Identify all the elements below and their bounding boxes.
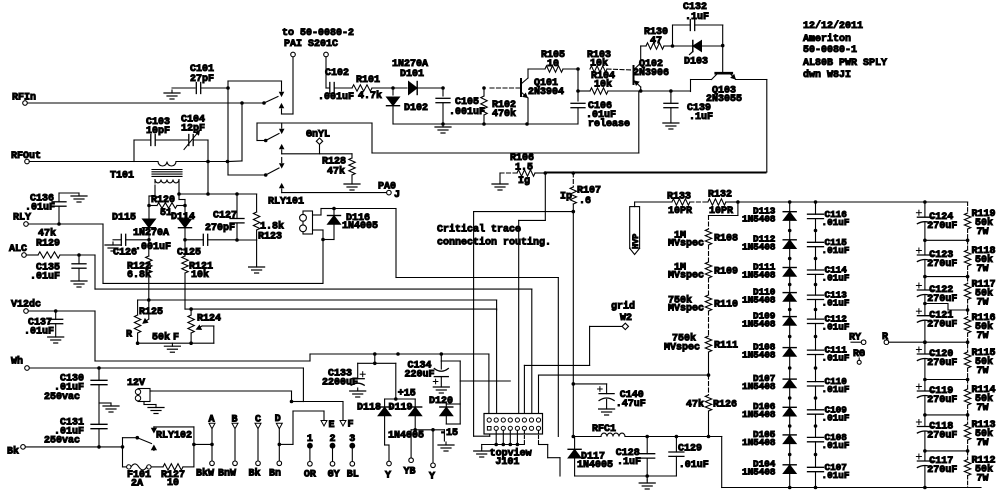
wire HV top rail <box>738 200 968 204</box>
wire HVP to R133 <box>635 202 672 207</box>
terminal S201C <box>324 52 329 57</box>
node grid W2 <box>611 301 635 330</box>
wire +15 branch <box>358 354 396 399</box>
switch S1a lower contact <box>280 104 284 114</box>
wire D column to E terminal <box>278 411 325 446</box>
resistor R117 50k 7W <box>964 280 995 309</box>
svg-text:BkW: BkW <box>196 468 214 480</box>
wire Ig line to Q103 <box>545 171 766 175</box>
switch S1b blade <box>264 134 279 143</box>
potentiometer R124 <box>188 309 221 343</box>
wire Bk line <box>25 445 124 449</box>
terminal R <box>882 332 927 345</box>
connector J101 top row pins <box>487 418 541 422</box>
wire Wh line <box>29 366 303 370</box>
capacitor C131 .01uF 250vac <box>44 418 107 447</box>
capacitor C135 .01uF <box>30 255 86 283</box>
wire R101 to D101 <box>372 86 407 90</box>
diode D117 1N4005 <box>568 437 613 477</box>
terminal 2 GY <box>328 434 340 481</box>
svg-text:R129: R129 <box>36 239 60 250</box>
capacitor C117 270uF <box>916 454 957 476</box>
capacitor C127 270pF <box>205 194 244 242</box>
capacitor C109 .01uF <box>808 404 850 423</box>
terminal 3 BL <box>347 434 359 481</box>
resistor R103 10k <box>587 50 632 72</box>
svg-text:C126: C126 <box>113 248 137 259</box>
svg-text:BnW: BnW <box>218 469 236 480</box>
probe HVP <box>630 207 641 255</box>
switch S1b upper contact <box>280 123 284 133</box>
wire filter stage link <box>923 449 969 453</box>
wire V12dc rail <box>28 309 489 418</box>
wire HV diode chain column <box>788 202 792 488</box>
diode D101 1N270A <box>392 59 443 95</box>
svg-text:to 50-0080-2: to 50-0080-2 <box>282 28 354 39</box>
svg-text:1N5408: 1N5408 <box>742 242 776 253</box>
svg-text:1N5408: 1N5408 <box>742 409 776 420</box>
svg-text:7W: 7W <box>977 227 989 238</box>
svg-text:27pF: 27pF <box>190 74 214 85</box>
capacitor C114 .01uF <box>808 265 850 284</box>
svg-text:S201C: S201C <box>308 39 338 50</box>
svg-text:7W: 7W <box>977 474 989 485</box>
capacitor C129 .01uF <box>669 437 709 477</box>
svg-text:7W: 7W <box>977 438 989 449</box>
capacitor C108 .01uF <box>808 432 850 451</box>
resistor R128 47k <box>322 154 355 180</box>
svg-text:7W: 7W <box>977 403 989 414</box>
svg-text:.001uF: .001uF <box>449 107 485 118</box>
node Wh label <box>11 356 23 368</box>
terminal YB <box>404 458 416 478</box>
resistor R119 50k 7W <box>964 209 995 238</box>
transistor Q101 2N3904 <box>490 69 564 124</box>
diode D109 1N5408 <box>742 311 796 330</box>
svg-text:7W: 7W <box>977 298 989 309</box>
label R for R125 <box>126 330 132 341</box>
svg-text:.01uF: .01uF <box>679 460 709 471</box>
wire D117 bottom rail <box>575 474 677 478</box>
resistor R123 1.8k <box>237 194 284 263</box>
wire S1a to PAI <box>282 57 294 114</box>
wire grid W2 to J101 <box>524 326 622 417</box>
wire D118 D119 link <box>385 397 416 407</box>
svg-text:.1uF: .1uF <box>689 112 713 123</box>
svg-text:47k: 47k <box>327 166 345 178</box>
svg-text:Bn: Bn <box>269 469 281 480</box>
svg-text:Wh: Wh <box>11 356 23 368</box>
wire D116 top rail right <box>334 209 558 437</box>
ground for minus15 <box>438 442 454 451</box>
connector J101 body <box>484 414 543 435</box>
resistor R110 750k MVspec <box>668 295 738 337</box>
wire RLY102 bottom loop <box>123 447 127 467</box>
svg-text:1N5408: 1N5408 <box>742 269 776 280</box>
capacitor C128 .1uF <box>616 437 655 481</box>
terminal D Bn <box>269 414 282 480</box>
svg-text:D119: D119 <box>389 402 413 413</box>
terminal F spade <box>340 420 354 431</box>
resistor R133 10PR <box>667 192 692 217</box>
capacitor C130 .01uF 250vac <box>44 368 107 424</box>
diode D108 1N5408 <box>742 342 796 361</box>
svg-text:R108: R108 <box>714 234 738 245</box>
svg-text:.01uF: .01uF <box>24 327 54 338</box>
wire RFC1 node to HV bottom rail <box>721 437 723 488</box>
svg-text:.001uF: .001uF <box>318 92 354 103</box>
ground for C133 <box>350 388 366 397</box>
resistor R121 10k <box>182 240 213 311</box>
svg-text:GY: GY <box>328 470 340 481</box>
capacitor C125 <box>147 234 237 258</box>
svg-text:.1uF: .1uF <box>685 12 709 23</box>
svg-text:R109: R109 <box>714 267 738 278</box>
transistor Q103 2N3055 <box>691 44 743 105</box>
resistor R112 50k 7W <box>964 456 995 485</box>
svg-text:C127: C127 <box>213 211 237 222</box>
svg-text:.6: .6 <box>579 196 591 207</box>
diode D102 <box>387 88 429 124</box>
wire filter stage link <box>923 239 969 243</box>
wire HV snubber cap column <box>814 202 818 488</box>
capacitor C118 270uF <box>916 420 957 442</box>
terminal Wh <box>25 366 30 371</box>
terminal PAI <box>291 52 296 57</box>
ground for C139 <box>663 120 679 129</box>
svg-text:R120: R120 <box>151 195 175 206</box>
svg-text:10: 10 <box>167 478 179 489</box>
svg-text:RLY101: RLY101 <box>268 197 304 208</box>
ground for C134 <box>433 384 449 393</box>
svg-text:MVspec: MVspec <box>668 271 704 282</box>
switch S1a blade <box>262 97 278 105</box>
svg-text:C129: C129 <box>678 444 702 455</box>
terminal RFOut <box>25 159 30 164</box>
diode D114 <box>133 206 195 254</box>
svg-text:+15: +15 <box>398 389 416 400</box>
svg-text:7W: 7W <box>977 366 989 377</box>
svg-text:4.7k: 4.7k <box>358 90 382 102</box>
terminal B BnW <box>218 415 238 480</box>
svg-text:250vac: 250vac <box>44 392 80 403</box>
transformer T101 <box>110 170 182 183</box>
terminal PA0 J <box>378 182 400 202</box>
connector J101 bottom row pins <box>487 426 540 430</box>
wire R107 column down to RFC1 <box>572 212 576 439</box>
svg-text:R: R <box>126 330 132 341</box>
label critical trace <box>437 224 551 249</box>
capacitor C119 270uF <box>916 384 957 406</box>
wire R132 junction down to bleeder chain <box>709 202 738 229</box>
svg-text:.01uF: .01uF <box>822 440 850 451</box>
ground for C128 <box>639 480 655 489</box>
terminal Y1 <box>385 461 391 481</box>
svg-text:MVspec: MVspec <box>668 304 704 315</box>
title block <box>803 20 887 81</box>
capacitor C120 270uF <box>916 347 957 369</box>
svg-text:.01uF: .01uF <box>822 412 850 423</box>
svg-text:PAI: PAI <box>284 39 302 50</box>
wire T101 secondary left lead <box>149 180 155 206</box>
svg-text:R101: R101 <box>356 75 380 86</box>
resistor R107 .6 Ip <box>560 173 601 213</box>
svg-text:R124: R124 <box>197 313 221 324</box>
svg-text:RLY102: RLY102 <box>156 431 192 442</box>
svg-text:-15: -15 <box>440 428 458 439</box>
switch S1a upper contact <box>280 81 284 96</box>
wire to PA0 <box>282 192 387 194</box>
capacitor C124 270uF <box>916 210 957 232</box>
capacitor C126 <box>105 234 149 258</box>
svg-text:OR: OR <box>304 470 316 481</box>
wire HV bottom rail <box>722 486 981 490</box>
wire Ig sense down to J101 <box>519 173 546 418</box>
relay RLY102 <box>123 427 194 467</box>
capacitor C121 270uF <box>916 309 957 331</box>
switch S1c lower contact <box>280 184 284 193</box>
svg-text:D120: D120 <box>429 396 453 407</box>
wire S201C to C102 <box>325 57 327 88</box>
ground tap between C130 C131 <box>99 403 119 412</box>
capacitor C103 10pF <box>134 117 183 162</box>
svg-text:.01uF: .01uF <box>822 322 850 333</box>
resistor R129 47k <box>26 228 80 259</box>
svg-text:Ip: Ip <box>560 192 572 203</box>
terminal RFIn <box>23 101 28 106</box>
svg-text:2A: 2A <box>131 479 143 490</box>
svg-text:12pF: 12pF <box>181 124 205 135</box>
diode D120 <box>429 396 460 439</box>
wire J101 bottom pin drops <box>482 430 525 448</box>
svg-text:R111: R111 <box>714 341 738 352</box>
svg-text:.01uF: .01uF <box>822 217 850 228</box>
svg-text:F: F <box>173 333 179 344</box>
capacitor C105 .001uF <box>436 86 485 124</box>
terminal 1 OR <box>304 434 316 481</box>
svg-text:D101: D101 <box>400 69 424 80</box>
wire detector top rail <box>179 192 257 196</box>
svg-text:10PR: 10PR <box>668 206 692 217</box>
terminal RY <box>849 333 866 345</box>
svg-text:1N5408: 1N5408 <box>742 381 776 392</box>
svg-text:.01uF: .01uF <box>822 298 850 309</box>
switch S1c upper contact <box>280 158 284 168</box>
svg-text:.01uF: .01uF <box>822 245 850 256</box>
wire D120 cathode to C134 node <box>446 404 460 407</box>
resistor R102 470k <box>481 86 516 124</box>
svg-text:2N3906: 2N3906 <box>633 68 669 79</box>
capacitor C137 .01uF <box>24 311 63 338</box>
wire C104 right leg down <box>207 140 209 194</box>
node V12dc label <box>11 299 41 311</box>
svg-text:.01uF: .01uF <box>822 353 850 364</box>
diode D110 1N5408 <box>742 287 796 306</box>
diode D105 1N5408 <box>742 429 796 448</box>
resistor R105 10 <box>541 50 580 72</box>
ground for 12V lamp <box>148 405 164 414</box>
fuse F101 2A <box>127 464 151 490</box>
wire bleeder resistor column <box>967 202 969 488</box>
label to 50-0080-2 <box>282 28 354 50</box>
ground for R128 <box>344 181 360 190</box>
terminal A BkW <box>196 415 215 480</box>
svg-text:470k: 470k <box>492 108 516 120</box>
wire R105 junction down to R104 <box>577 69 579 91</box>
capacitor C139 .1uF <box>664 91 713 123</box>
terminal RG <box>853 349 865 364</box>
wire R107 bottom to left <box>474 212 574 437</box>
svg-text:R132: R132 <box>708 190 732 201</box>
svg-text:.01uF: .01uF <box>822 384 850 395</box>
svg-text:270pF: 270pF <box>205 223 235 234</box>
diode D112 1N5408 <box>742 234 796 253</box>
diode D119 1N4005 <box>388 402 424 441</box>
wire RLY101 coil bottom <box>313 230 325 241</box>
switch S1b lower contact <box>280 145 284 154</box>
svg-text:10k: 10k <box>191 269 209 281</box>
svg-text:2N3904: 2N3904 <box>528 87 564 98</box>
svg-text:BL: BL <box>347 470 359 481</box>
svg-text:250vac: 250vac <box>44 436 80 447</box>
svg-text:Critical trace: Critical trace <box>437 224 521 236</box>
resistor R113 50k 7W <box>964 420 995 449</box>
svg-text:1N4005: 1N4005 <box>342 221 378 232</box>
capacitor C102 .001uF <box>318 68 354 103</box>
svg-text:1N5408: 1N5408 <box>742 437 776 448</box>
svg-text:.01uF: .01uF <box>30 272 60 283</box>
ground for C140 <box>599 406 615 415</box>
wire RLY101 coil top to D116 <box>313 207 336 215</box>
svg-text:MVspec: MVspec <box>668 239 704 250</box>
ground for rail <box>435 124 451 133</box>
capacitor C132 .1uF <box>673 2 723 46</box>
svg-text:6.8k: 6.8k <box>127 269 151 281</box>
wire ALC rail <box>79 255 532 418</box>
svg-text:Bk: Bk <box>7 446 19 458</box>
svg-text:.01uF: .01uF <box>822 273 850 284</box>
wire J101 wrap right <box>539 430 561 476</box>
wire minus15 dist to J101 <box>460 380 510 382</box>
potentiometer R125 50k <box>134 300 163 343</box>
resistor R104 10k <box>578 71 641 94</box>
node Bk label <box>7 446 19 458</box>
resistor R108 1M MVspec <box>668 229 738 262</box>
resistor R120 51 <box>147 195 187 219</box>
svg-text:R110: R110 <box>714 300 738 311</box>
wire RLY102 output to A <box>192 443 214 447</box>
svg-text:1N4005: 1N4005 <box>388 431 424 442</box>
wire switch S1c feed <box>228 88 264 175</box>
svg-text:connection routing.: connection routing. <box>437 237 551 249</box>
node RFOut label <box>11 151 41 162</box>
svg-text:C102: C102 <box>325 68 349 79</box>
capacitor C106 .01uF release <box>571 89 630 130</box>
svg-text:D115: D115 <box>112 213 136 224</box>
wire RFIn branch down <box>228 103 242 162</box>
node RLY label <box>13 213 31 224</box>
resistor R109 1M MVspec <box>668 262 738 295</box>
wire D119 to YB <box>411 428 417 458</box>
resistor R127 10 <box>151 464 194 489</box>
capacitor C111 .01uF <box>808 345 850 364</box>
wire pot bottom rail <box>136 332 214 346</box>
svg-text:1N5408: 1N5408 <box>742 350 776 361</box>
svg-text:.1uF: .1uF <box>617 457 641 468</box>
capacitor C110 .01uF <box>808 376 850 395</box>
label J101 topview <box>490 448 532 469</box>
resistor R126 47k <box>686 375 737 438</box>
svg-text:J101: J101 <box>495 457 519 468</box>
svg-text:HVP: HVP <box>631 234 641 249</box>
wire R111 tap to J101 <box>539 375 709 418</box>
capacitor C101 27pF <box>172 64 228 94</box>
ground for C101 <box>164 90 180 99</box>
resistor R122 6.8k <box>127 240 152 302</box>
wire base line to Q103 <box>639 89 691 93</box>
resistor R111 750k MVspec <box>664 333 738 377</box>
diode D107 1N5408 <box>742 373 796 392</box>
svg-text:Ig: Ig <box>518 176 530 187</box>
capacitor C133 2200uF <box>322 363 365 388</box>
terminal ALC <box>22 253 27 258</box>
zener diode D103 <box>673 41 723 68</box>
wire filter stage jog link <box>923 302 969 312</box>
transistor Q102 2N3906 <box>633 46 669 91</box>
svg-text:W2: W2 <box>620 313 632 324</box>
svg-text:Bk: Bk <box>249 468 261 480</box>
lamp 12V <box>127 378 156 405</box>
svg-text:Y: Y <box>385 471 391 482</box>
svg-text:1N5408: 1N5408 <box>742 214 776 225</box>
svg-text:F: F <box>348 420 354 431</box>
ground for C137 <box>48 334 64 343</box>
diode D116 1N4005 <box>323 209 378 240</box>
svg-text:release: release <box>588 118 630 130</box>
ground for J101 <box>474 448 490 457</box>
resistor R118 50k 7W <box>964 246 995 275</box>
wire RLY line <box>28 222 323 283</box>
wire C140 branch <box>573 384 606 394</box>
inductor RFC1 <box>573 424 721 438</box>
svg-text:D118: D118 <box>357 402 381 413</box>
ground for pots <box>164 343 180 352</box>
ground for R106 <box>492 181 508 190</box>
svg-text:AL80B PWR SPLY: AL80B PWR SPLY <box>803 58 887 69</box>
svg-text:12/12/2011: 12/12/2011 <box>803 20 863 32</box>
svg-text:.01uF: .01uF <box>822 470 850 481</box>
svg-text:grid: grid <box>611 301 635 313</box>
svg-text:YB: YB <box>404 467 416 478</box>
svg-text:T101: T101 <box>110 171 134 182</box>
capacitor C134 220uF <box>405 354 461 424</box>
terminal RLY <box>24 222 29 227</box>
switch S1c blade <box>264 168 279 177</box>
svg-text:50-0080-1: 50-0080-1 <box>803 45 857 56</box>
wire filter stage link <box>923 378 969 382</box>
resistor R106 1.5 Ig <box>500 153 547 187</box>
diode D106 1N5408 <box>742 401 796 420</box>
wire S1b top rail to release line <box>257 91 639 153</box>
wire RFOut line with T101 primary <box>29 160 229 166</box>
svg-text:10pF: 10pF <box>146 126 170 137</box>
diode D113 1N5408 <box>742 206 796 225</box>
svg-text:1N5408: 1N5408 <box>742 319 776 330</box>
diode D111 1N5408 <box>742 261 796 280</box>
capacitor C113 .01uF <box>808 290 850 309</box>
wire filter stage link <box>923 340 969 344</box>
wire Wh to F terminal <box>292 368 344 421</box>
